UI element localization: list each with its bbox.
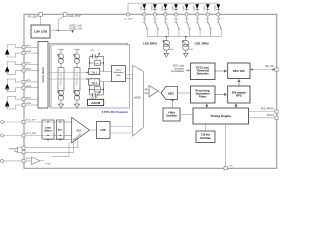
LED supply rail xyxy=(128,3,218,14)
svg-text:ADD_PROG: ADD_PROG xyxy=(261,107,275,110)
pin GPIO xyxy=(275,116,278,119)
pin Tx5 xyxy=(185,13,188,16)
svg-text:Tx6: Tx6 xyxy=(195,18,199,20)
svg-text:INM1: INM1 xyxy=(26,51,32,53)
current source PD bias DAC2 xyxy=(74,50,80,68)
photodiode PD4 xyxy=(5,101,9,107)
svg-text:VCM: VCM xyxy=(45,164,50,166)
wire PD2 cathode to INP2 xyxy=(7,62,22,66)
wire PD4 anode to INM4 xyxy=(7,105,22,109)
pin INP3 xyxy=(22,80,25,83)
regulator 1.8V LDO xyxy=(31,25,50,38)
wire LPF to mux xyxy=(110,127,133,134)
svg-text:Tx1: Tx1 xyxy=(142,18,146,20)
block Switch Matrix xyxy=(38,42,48,109)
svg-text:ADC: ADC xyxy=(168,91,175,95)
capacitor CF1 xyxy=(90,50,104,59)
switch SW1 xyxy=(144,16,148,36)
arrow supply out xyxy=(71,30,74,33)
svg-text:LED1: LED1 xyxy=(141,5,143,11)
amplifier TIA2 xyxy=(89,79,100,85)
ground channel 2 xyxy=(74,104,80,108)
wire RX_SUP to LDO xyxy=(40,16,42,25)
svg-text:INM3: INM3 xyxy=(26,86,32,88)
svg-text:LED_DRV2: LED_DRV2 xyxy=(195,41,209,45)
wire timing to GPIO pin xyxy=(249,117,276,119)
wire timing to CLK pin xyxy=(225,124,227,167)
pin INM2 xyxy=(22,69,25,72)
ground LED_DRV2 xyxy=(184,53,189,57)
svg-text:INM2: INM2 xyxy=(26,69,32,71)
pin INP2 xyxy=(22,63,25,66)
svg-text:2 PPG RX Channels: 2 PPG RX Channels xyxy=(102,110,129,114)
svg-text:DVDD_1V8: DVDD_1V8 xyxy=(70,28,83,31)
filter LPF xyxy=(97,122,111,139)
wire INM3 to switch matrix xyxy=(25,87,38,89)
pin Tx3 xyxy=(164,13,167,16)
wire PD3 cathode to INP3 xyxy=(7,79,22,83)
wire INP1 to switch matrix xyxy=(25,46,38,48)
switch SW8 xyxy=(218,16,222,36)
amplifier RLD driver xyxy=(31,157,40,165)
wire timing to processing xyxy=(206,104,208,108)
svg-text:INA: INA xyxy=(77,128,82,132)
electrode pin RLD external xyxy=(1,159,4,162)
node LDO junction xyxy=(57,30,59,32)
amplifier INA xyxy=(72,117,90,142)
wire ECG box to SPI xyxy=(215,70,227,72)
svg-text:Tx8: Tx8 xyxy=(216,18,220,20)
svg-text:INP2: INP2 xyxy=(26,63,32,65)
LED driver bus xyxy=(147,36,221,38)
wire INM2 to switch matrix xyxy=(25,69,38,71)
pin INM4 xyxy=(22,104,25,107)
svg-text:SPI, I2C: SPI, I2C xyxy=(265,65,274,68)
pin ECG_INP chip xyxy=(22,120,25,123)
svg-text:Detect: Detect xyxy=(44,130,51,133)
LED7 xyxy=(204,3,210,13)
wire INP2 to switch matrix xyxy=(25,64,38,66)
svg-text:Tx4: Tx4 xyxy=(174,18,178,20)
wire TIA2 out xyxy=(100,81,112,83)
wire lead detect bias bottom xyxy=(44,139,74,141)
svg-text:MUX: MUX xyxy=(134,95,140,99)
pin RBIAS1 xyxy=(22,146,25,149)
svg-text:LED8: LED8 xyxy=(215,5,217,11)
wire feedback 1 xyxy=(90,56,104,71)
LED3 xyxy=(162,3,168,13)
switch SW3 xyxy=(165,16,169,36)
wire INP4 to switch matrix xyxy=(25,98,38,100)
buffer amp xyxy=(149,86,158,97)
current source offset DAC1 xyxy=(58,91,64,105)
block AACM xyxy=(88,97,104,106)
pin RLD chip xyxy=(22,159,25,162)
svg-text:Oscillator: Oscillator xyxy=(166,115,177,118)
wire filter to mux xyxy=(126,75,133,79)
svg-text:Filter: Filter xyxy=(116,74,121,77)
current source LED_DRV1 xyxy=(163,36,174,54)
wire PD1 cathode to INP1 xyxy=(7,45,22,49)
LED5 xyxy=(183,3,189,13)
svg-text:Switch Matrix: Switch Matrix xyxy=(41,66,45,82)
pin TX_SUP xyxy=(126,13,129,16)
svg-text:SPI / I2C: SPI / I2C xyxy=(233,69,246,73)
pin CLK bottom xyxy=(224,167,227,170)
svg-text:Noise: Noise xyxy=(116,69,122,71)
svg-text:TIA 2: TIA 2 xyxy=(91,82,97,85)
pin SPI I2C xyxy=(275,68,278,71)
wire RBIAS2 internal xyxy=(25,140,73,152)
svg-text:LED7: LED7 xyxy=(204,5,206,11)
wire RLD feedback xyxy=(52,142,69,157)
wire ECG_INP through boxes xyxy=(42,121,72,123)
svg-text:Filters: Filters xyxy=(199,95,207,99)
pin ECG_INM chip xyxy=(22,134,25,137)
block Bias xyxy=(57,120,65,139)
ground channel 1 xyxy=(58,104,64,108)
block SPI I2C xyxy=(228,63,250,79)
wire TIA1 out xyxy=(100,71,112,73)
block pickoff network 2 xyxy=(74,68,80,91)
svg-text:RLD: RLD xyxy=(26,158,31,160)
current source LED_DRV2 xyxy=(182,36,193,54)
pin INP1 xyxy=(22,46,25,49)
mux MUX trapezoid xyxy=(133,65,144,136)
capacitor CF2 xyxy=(90,92,104,101)
svg-text:TIA 1: TIA 1 xyxy=(91,72,97,75)
electrode pin ECG_INP external xyxy=(1,121,4,124)
pin ADD_PROG xyxy=(275,110,278,113)
svg-text:Timing Engine: Timing Engine xyxy=(210,114,231,118)
wire SPI to pin xyxy=(250,69,275,71)
svg-text:LED4: LED4 xyxy=(172,5,174,11)
wire RLD xyxy=(4,160,32,162)
chip boundary U1 xyxy=(24,14,277,168)
block ECG Lead Threshold Detection xyxy=(191,63,216,80)
wire PD1 anode to INM1 xyxy=(7,53,22,57)
pin Tx1 xyxy=(143,13,146,16)
amplifier TIA1 xyxy=(89,68,100,74)
current source offset DAC2 xyxy=(74,91,80,105)
pin INP4 xyxy=(22,98,25,101)
node dots ECG wires xyxy=(47,121,48,122)
wire timing to fifo xyxy=(235,104,237,108)
wire ECG_INM through boxes xyxy=(42,135,72,137)
pin RX_SUP xyxy=(39,13,43,17)
svg-text:INP3: INP3 xyxy=(26,80,32,82)
svg-text:RBIAS: RBIAS xyxy=(9,148,14,151)
pin CHG_BYP xyxy=(63,13,67,17)
svg-text:INP4: INP4 xyxy=(26,97,32,99)
wire LDO output xyxy=(50,29,73,31)
LED1 xyxy=(141,3,147,13)
svg-text:RX_SUP: RX_SUP xyxy=(28,15,39,19)
switch SW7 xyxy=(207,16,211,36)
pin Tx7 xyxy=(206,13,209,16)
wire channel 2 signal xyxy=(48,78,89,80)
wire feedback 2 xyxy=(90,82,104,95)
wire junction to CHG_BYP xyxy=(58,16,64,30)
svg-text:comparators: comparators xyxy=(171,70,185,73)
svg-text:Tx7: Tx7 xyxy=(206,18,210,20)
filter Noise Reduction Filter xyxy=(112,66,126,82)
photodiode PD1 xyxy=(5,49,9,55)
wire Processing to FIFO xyxy=(215,94,227,96)
svg-text:LED6: LED6 xyxy=(194,5,196,11)
block Timing Engine xyxy=(193,108,249,124)
photodiode PD2 xyxy=(5,66,9,72)
svg-text:LED5: LED5 xyxy=(183,5,185,11)
switch SW2 xyxy=(154,16,158,36)
svg-text:CHG_BYP: CHG_BYP xyxy=(68,14,81,18)
LED4 xyxy=(172,3,178,13)
wire FIFO to SPI xyxy=(238,80,240,86)
wire PD3 anode to INM3 xyxy=(7,88,22,92)
svg-text:Bias: Bias xyxy=(58,130,63,132)
electrode pin ECG_INM external xyxy=(1,134,4,137)
svg-text:AACM: AACM xyxy=(91,101,100,105)
pin Tx6 xyxy=(196,13,199,16)
LED8 xyxy=(215,3,221,13)
switch RLD enable xyxy=(74,134,81,140)
svg-text:Lead: Lead xyxy=(45,128,51,130)
block 256 sample FIFO xyxy=(228,86,250,103)
svg-text:Tx_SUP: Tx_SUP xyxy=(124,18,133,20)
switch SW4 xyxy=(175,16,179,36)
wire timing to 128k xyxy=(204,124,206,131)
wire 4MHz to timing xyxy=(180,114,193,116)
svg-text:LED3: LED3 xyxy=(162,5,164,11)
adc ADC xyxy=(161,86,177,99)
block 2 PPG RX channels (stacked) xyxy=(50,43,128,106)
switch SW6 xyxy=(197,16,201,36)
svg-text:Detection: Detection xyxy=(197,72,209,76)
wire INA to LPF xyxy=(90,129,97,131)
svg-text:Tx2: Tx2 xyxy=(153,18,157,20)
wire INM1 to switch matrix xyxy=(25,52,38,54)
LED6 xyxy=(194,3,200,13)
switch SW5 xyxy=(186,16,190,36)
wire ECG_INP xyxy=(4,121,72,123)
ground LED_DRV1 xyxy=(164,53,169,57)
svg-text:GPIO1: GPIO1 xyxy=(267,114,275,117)
wire ADC to oscillator xyxy=(172,100,174,108)
pin INM1 xyxy=(22,52,25,55)
wire buffer to adc xyxy=(158,91,161,93)
block Lead Detect xyxy=(42,120,54,139)
pin Tx8 xyxy=(217,13,220,16)
svg-text:FIFO: FIFO xyxy=(236,94,242,98)
LED2 xyxy=(151,3,157,13)
wire channel 1 signal xyxy=(48,72,89,74)
resistor RBIAS xyxy=(9,148,24,153)
wire VCM xyxy=(40,160,44,162)
svg-text:LED2: LED2 xyxy=(151,5,153,11)
wire timing to ADD pin xyxy=(249,111,276,113)
svg-text:Oscillator: Oscillator xyxy=(200,137,211,140)
svg-text:INP1: INP1 xyxy=(26,45,32,47)
wire mux to buffer xyxy=(143,89,149,93)
svg-text:LED_DRV1: LED_DRV1 xyxy=(143,41,157,45)
resistor RF1 xyxy=(90,60,104,65)
wire RBIAS1 internal xyxy=(25,139,78,148)
resistor RF2 xyxy=(90,87,104,92)
block pickoff network 1 xyxy=(58,68,64,91)
svg-text:CLK: CLK xyxy=(229,165,234,167)
svg-text:LPF: LPF xyxy=(100,128,106,132)
wire ECG_INM xyxy=(4,135,72,137)
block Processing Decimation Filters xyxy=(191,86,216,103)
current source PD bias DAC1 xyxy=(58,50,64,68)
wire INM4 to switch matrix xyxy=(25,104,38,106)
pin Tx2 xyxy=(153,13,156,16)
pin INM3 xyxy=(22,86,25,89)
oscillator 128 kHz xyxy=(196,131,215,143)
photodiode PD3 xyxy=(5,84,9,90)
pin RBIAS2 xyxy=(22,151,25,154)
wire INP3 to switch matrix xyxy=(25,81,38,83)
svg-text:Tx5: Tx5 xyxy=(185,18,189,20)
label ECG lead detection comparators xyxy=(171,65,190,74)
svg-text:ECG_INP: ECG_INP xyxy=(26,120,36,122)
wire adc to processing xyxy=(177,92,190,94)
wire PD4 cathode to INP4 xyxy=(7,96,22,100)
svg-text:Tx3: Tx3 xyxy=(164,18,168,20)
oscillator 4 MHz xyxy=(163,108,180,121)
svg-text:INM4: INM4 xyxy=(26,103,32,105)
svg-text:1.8V LDO: 1.8V LDO xyxy=(34,30,48,34)
svg-text:ECG_INM: ECG_INM xyxy=(26,133,36,135)
wire PD2 anode to INM2 xyxy=(7,70,22,74)
svg-text:Reduction: Reduction xyxy=(114,71,125,74)
pin Tx4 xyxy=(174,13,177,16)
